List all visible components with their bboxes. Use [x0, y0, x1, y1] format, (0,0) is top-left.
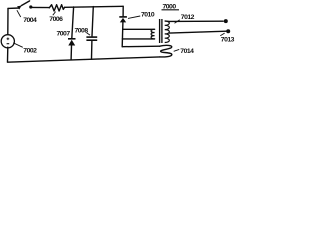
wire diode 7007 branch bottom: [70, 46, 72, 60]
label 7014 leader: [174, 49, 180, 51]
svg-text:7012: 7012: [181, 14, 195, 21]
wire secondary top stub: [165, 20, 169, 22]
wire left rail top: [7, 8, 9, 34]
svg-text:7004: 7004: [23, 17, 37, 24]
wire bottom link to coil: [122, 45, 160, 48]
wire primary top: [123, 28, 155, 30]
svg-text:7007: 7007: [57, 31, 71, 38]
label 7013 leader: [220, 33, 224, 36]
transformer T secondary winding: [165, 21, 170, 43]
wire secondary lower output: [169, 31, 226, 33]
wire primary bottom: [122, 38, 154, 40]
wire capacitor 7008 branch top: [92, 7, 93, 37]
terminal dot lower 7013: [226, 29, 230, 33]
wire secondary top output: [169, 20, 223, 22]
label 7008 leader: [87, 33, 90, 35]
switch S 7004 arrowhead: [17, 6, 22, 10]
wire top rail right: [65, 6, 123, 7]
wire capacitor 7008 branch bottom: [91, 41, 93, 60]
figure label 7000 underline: [162, 9, 180, 11]
diode D 7010 bar: [119, 16, 127, 18]
svg-text:7010: 7010: [141, 11, 155, 18]
transformer T primary winding: [151, 29, 155, 39]
svg-text:7014: 7014: [180, 48, 194, 55]
diode D 7010 triangle: [120, 18, 126, 23]
wire top rail left: [8, 7, 19, 9]
label 7002 leader: [13, 43, 23, 48]
svg-text:7002: 7002: [23, 47, 37, 54]
source V 7002 plus mark: [7, 38, 10, 41]
source V 7002 circle: [1, 35, 14, 48]
transformer T core lines: [160, 19, 162, 43]
diode D 7007 triangle: [68, 40, 75, 46]
svg-text:7013: 7013: [221, 36, 235, 43]
switch S 7004 contact dot: [29, 5, 32, 8]
wire vertical A top: [122, 6, 124, 16]
svg-text:7006: 7006: [49, 16, 63, 23]
resistor 7006 zigzag: [49, 5, 64, 11]
wire left rail bottom: [7, 47, 9, 62]
label 7006 leader: [53, 12, 56, 16]
capacitor C 7008 top plate: [86, 36, 97, 38]
label 7012 leader: [175, 20, 180, 24]
label 7004 leader: [17, 10, 21, 17]
label 7010 leader: [128, 16, 140, 18]
wire top rail mid: [32, 6, 49, 8]
switch S 7004 blade: [21, 1, 29, 6]
coil 7014 brace: [160, 45, 172, 57]
diode D 7007 bar: [68, 38, 76, 40]
terminal dot upper 7013: [224, 19, 228, 23]
wire vertical A below diode: [121, 22, 124, 46]
svg-text:7008: 7008: [75, 27, 89, 34]
capacitor C 7008 bottom plate: [86, 39, 97, 41]
wire diode 7007 branch top: [72, 7, 74, 39]
wire bottom rail: [8, 57, 160, 62]
source V 7002 minus mark: [7, 43, 10, 45]
